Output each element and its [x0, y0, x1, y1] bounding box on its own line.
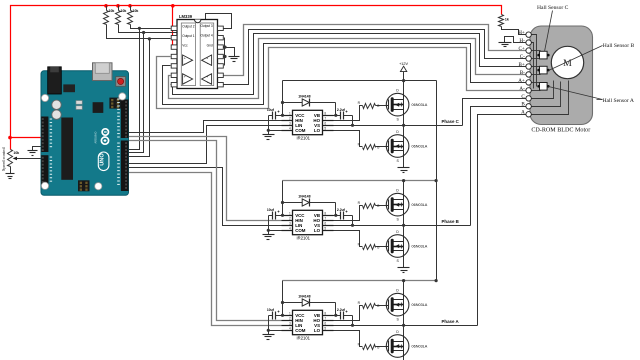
- svg-text:1N4148: 1N4148: [298, 195, 310, 199]
- svg-text:1: 1: [289, 211, 291, 215]
- svg-text:1N4148: 1N4148: [298, 95, 310, 99]
- svg-text:Hall Sensor C: Hall Sensor C: [537, 5, 569, 11]
- svg-text:LO: LO: [314, 328, 321, 333]
- svg-text:1: 1: [289, 311, 291, 315]
- svg-text:H-: H-: [519, 38, 525, 44]
- svg-text:COM: COM: [295, 228, 306, 233]
- svg-text:H+: H+: [518, 30, 525, 36]
- svg-text:Vcc: Vcc: [182, 43, 188, 47]
- svg-text:B-: B-: [520, 70, 525, 76]
- svg-text:LO: LO: [314, 128, 321, 133]
- svg-text:C: C: [521, 94, 525, 100]
- svg-text:06N03LA: 06N03LA: [412, 303, 428, 307]
- svg-text:8: 8: [324, 311, 326, 315]
- svg-text:+: +: [206, 56, 208, 60]
- svg-text:ARDUINO: ARDUINO: [94, 132, 98, 144]
- svg-text:2.2uf: 2.2uf: [337, 208, 346, 212]
- svg-text:IR2101: IR2101: [297, 235, 311, 240]
- svg-text:LO: LO: [314, 228, 321, 233]
- svg-text:CD-ROM BLDC Motor: CD-ROM BLDC Motor: [531, 128, 590, 134]
- svg-text:1k: 1k: [505, 18, 509, 22]
- svg-text:+: +: [184, 56, 186, 60]
- svg-text:Phase A: Phase A: [442, 319, 460, 324]
- svg-text:COM: COM: [295, 128, 306, 133]
- svg-text:+12V: +12V: [399, 62, 408, 66]
- svg-text:A-: A-: [519, 86, 525, 92]
- svg-text:G: G: [377, 245, 380, 249]
- svg-text:A: A: [521, 110, 525, 116]
- svg-text:Output 1: Output 1: [182, 34, 194, 38]
- svg-text:06N03LA: 06N03LA: [412, 345, 428, 349]
- svg-text:G: G: [377, 104, 380, 108]
- svg-text:A+: A+: [518, 78, 525, 84]
- svg-text:UNO: UNO: [100, 153, 106, 166]
- svg-text:Hall Sensor B: Hall Sensor B: [603, 43, 635, 49]
- svg-text:COM: COM: [295, 328, 306, 333]
- svg-text:+: +: [206, 75, 208, 79]
- svg-text:B+: B+: [519, 62, 525, 68]
- svg-text:06N03LA: 06N03LA: [412, 245, 428, 249]
- svg-text:8: 8: [324, 211, 326, 215]
- svg-text:7: 7: [324, 116, 326, 120]
- svg-text:+: +: [184, 75, 186, 79]
- svg-text:06N03LA: 06N03LA: [412, 203, 428, 207]
- svg-text:1N4148: 1N4148: [298, 295, 310, 299]
- svg-text:7: 7: [324, 216, 326, 220]
- svg-text:2: 2: [289, 316, 291, 320]
- svg-text:C-: C-: [520, 54, 525, 60]
- svg-text:IR2101: IR2101: [297, 335, 311, 340]
- svg-text:7: 7: [324, 316, 326, 320]
- svg-text:IR2101: IR2101: [297, 135, 311, 140]
- svg-text:Output 4: Output 4: [200, 33, 212, 37]
- svg-text:Phase B: Phase B: [442, 219, 459, 224]
- svg-text:G: G: [377, 345, 380, 349]
- svg-text:06N03LA: 06N03LA: [412, 103, 428, 107]
- svg-text:B: B: [521, 102, 525, 108]
- svg-text:Output 3: Output 3: [200, 24, 212, 28]
- svg-text:G: G: [377, 145, 380, 149]
- svg-text:10k: 10k: [133, 9, 139, 13]
- svg-text:C+: C+: [519, 46, 525, 52]
- svg-text:10uf: 10uf: [267, 308, 275, 312]
- svg-text:2.2uf: 2.2uf: [337, 108, 346, 112]
- svg-text:Speed control: Speed control: [1, 146, 6, 171]
- svg-text:Phase C: Phase C: [442, 119, 460, 124]
- svg-text:2.2uf: 2.2uf: [337, 308, 346, 312]
- svg-text:10k: 10k: [121, 9, 127, 13]
- svg-text:10k: 10k: [109, 9, 115, 13]
- svg-text:2: 2: [289, 216, 291, 220]
- svg-text:10uf: 10uf: [267, 108, 275, 112]
- svg-text:Gnd: Gnd: [207, 43, 213, 47]
- svg-text:8: 8: [324, 111, 326, 115]
- svg-text:10uf: 10uf: [267, 208, 275, 212]
- svg-text:2: 2: [289, 116, 291, 120]
- svg-text:1: 1: [289, 111, 291, 115]
- svg-text:G: G: [377, 204, 380, 208]
- svg-text:G: G: [377, 304, 380, 308]
- svg-text:Output 2: Output 2: [182, 25, 194, 29]
- svg-text:10k: 10k: [13, 151, 19, 155]
- svg-text:LM339: LM339: [179, 14, 193, 19]
- svg-text:06N03LA: 06N03LA: [412, 145, 428, 149]
- svg-text:Hall Sensor A: Hall Sensor A: [603, 98, 634, 104]
